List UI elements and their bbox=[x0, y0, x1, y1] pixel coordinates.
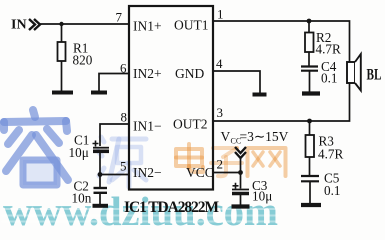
node R3 junction bbox=[307, 119, 312, 124]
svg-text:IC1 TDA2822M: IC1 TDA2822M bbox=[124, 199, 219, 216]
node input junction bbox=[59, 22, 63, 26]
power input chevron (Vcc) bbox=[235, 147, 246, 158]
capacitor C2 bbox=[94, 175, 108, 205]
svg-text:7: 7 bbox=[116, 10, 123, 25]
node C1/C2/pin5 junction bbox=[98, 172, 103, 177]
svg-text:IN2−: IN2− bbox=[133, 165, 162, 180]
svg-text:GND: GND bbox=[175, 66, 204, 81]
ground (C5) bbox=[301, 203, 321, 207]
capacitor C5 bbox=[301, 176, 319, 203]
svg-text:10μ: 10μ bbox=[69, 145, 89, 160]
ground (pin 6) bbox=[91, 91, 107, 95]
svg-text:OUT2: OUT2 bbox=[173, 117, 208, 132]
speaker BL bbox=[347, 54, 361, 91]
svg-text:=3∼15V: =3∼15V bbox=[240, 129, 289, 144]
wire Vcc arrow to pin 2 bbox=[240, 158, 242, 173]
wire IN to pin 7 bbox=[40, 23, 129, 25]
svg-text:IN1−: IN1− bbox=[133, 119, 162, 134]
capacitor C4 bbox=[301, 67, 318, 92]
ground (C2) bbox=[93, 204, 109, 208]
resistor R1 bbox=[58, 24, 66, 91]
svg-text:820: 820 bbox=[73, 53, 93, 68]
svg-text:VCC: VCC bbox=[186, 165, 214, 180]
wire OUT1 top rail bbox=[213, 21, 350, 62]
resistor R3 bbox=[306, 121, 315, 175]
capacitor C3 (electrolytic, +) bbox=[232, 173, 249, 205]
svg-text:3: 3 bbox=[217, 105, 224, 120]
ground (R1) bbox=[52, 91, 73, 95]
node C3 junction bbox=[238, 170, 243, 175]
svg-text:5: 5 bbox=[120, 159, 127, 174]
wire pin 8 to C1 bbox=[100, 124, 129, 146]
svg-text:V: V bbox=[221, 129, 231, 144]
wire pin 4 to ground bbox=[213, 71, 260, 93]
svg-text:IN2+: IN2+ bbox=[133, 66, 162, 81]
resistor R2 bbox=[305, 21, 314, 66]
capacitor C1 (electrolytic, +) bbox=[93, 141, 110, 175]
svg-text:1: 1 bbox=[217, 7, 224, 22]
wire OUT2 rail bbox=[213, 83, 350, 121]
svg-text:4.7R: 4.7R bbox=[318, 147, 343, 162]
ground (C4) bbox=[302, 91, 320, 95]
svg-text:BL: BL bbox=[367, 67, 382, 84]
wire pin 6 to ground bbox=[99, 74, 129, 92]
ground (C3) bbox=[232, 204, 250, 208]
svg-text:IN: IN bbox=[11, 18, 27, 33]
svg-text:10μ: 10μ bbox=[252, 189, 272, 204]
svg-text:2: 2 bbox=[217, 157, 224, 172]
svg-text:10n: 10n bbox=[72, 191, 92, 206]
wire pin 5 bbox=[100, 174, 129, 176]
wire pin 2 bbox=[213, 172, 241, 174]
svg-text:IN1+: IN1+ bbox=[133, 19, 162, 34]
IC U1 TDA2822M box bbox=[129, 6, 213, 190]
node R2 top junction bbox=[307, 19, 312, 24]
label Vcc = 3~15V bbox=[221, 129, 289, 146]
input terminal chevron bbox=[29, 19, 40, 30]
svg-text:6: 6 bbox=[120, 61, 127, 76]
svg-text:8: 8 bbox=[121, 110, 128, 125]
svg-text:0.1: 0.1 bbox=[321, 71, 337, 86]
ground (pin 4 GND) bbox=[253, 93, 267, 97]
svg-text:4.7R: 4.7R bbox=[316, 42, 341, 57]
svg-text:0.1: 0.1 bbox=[324, 183, 340, 198]
svg-text:4: 4 bbox=[216, 56, 223, 71]
watermark layer (decorative) bbox=[2, 110, 286, 234]
svg-text:OUT1: OUT1 bbox=[174, 18, 209, 33]
